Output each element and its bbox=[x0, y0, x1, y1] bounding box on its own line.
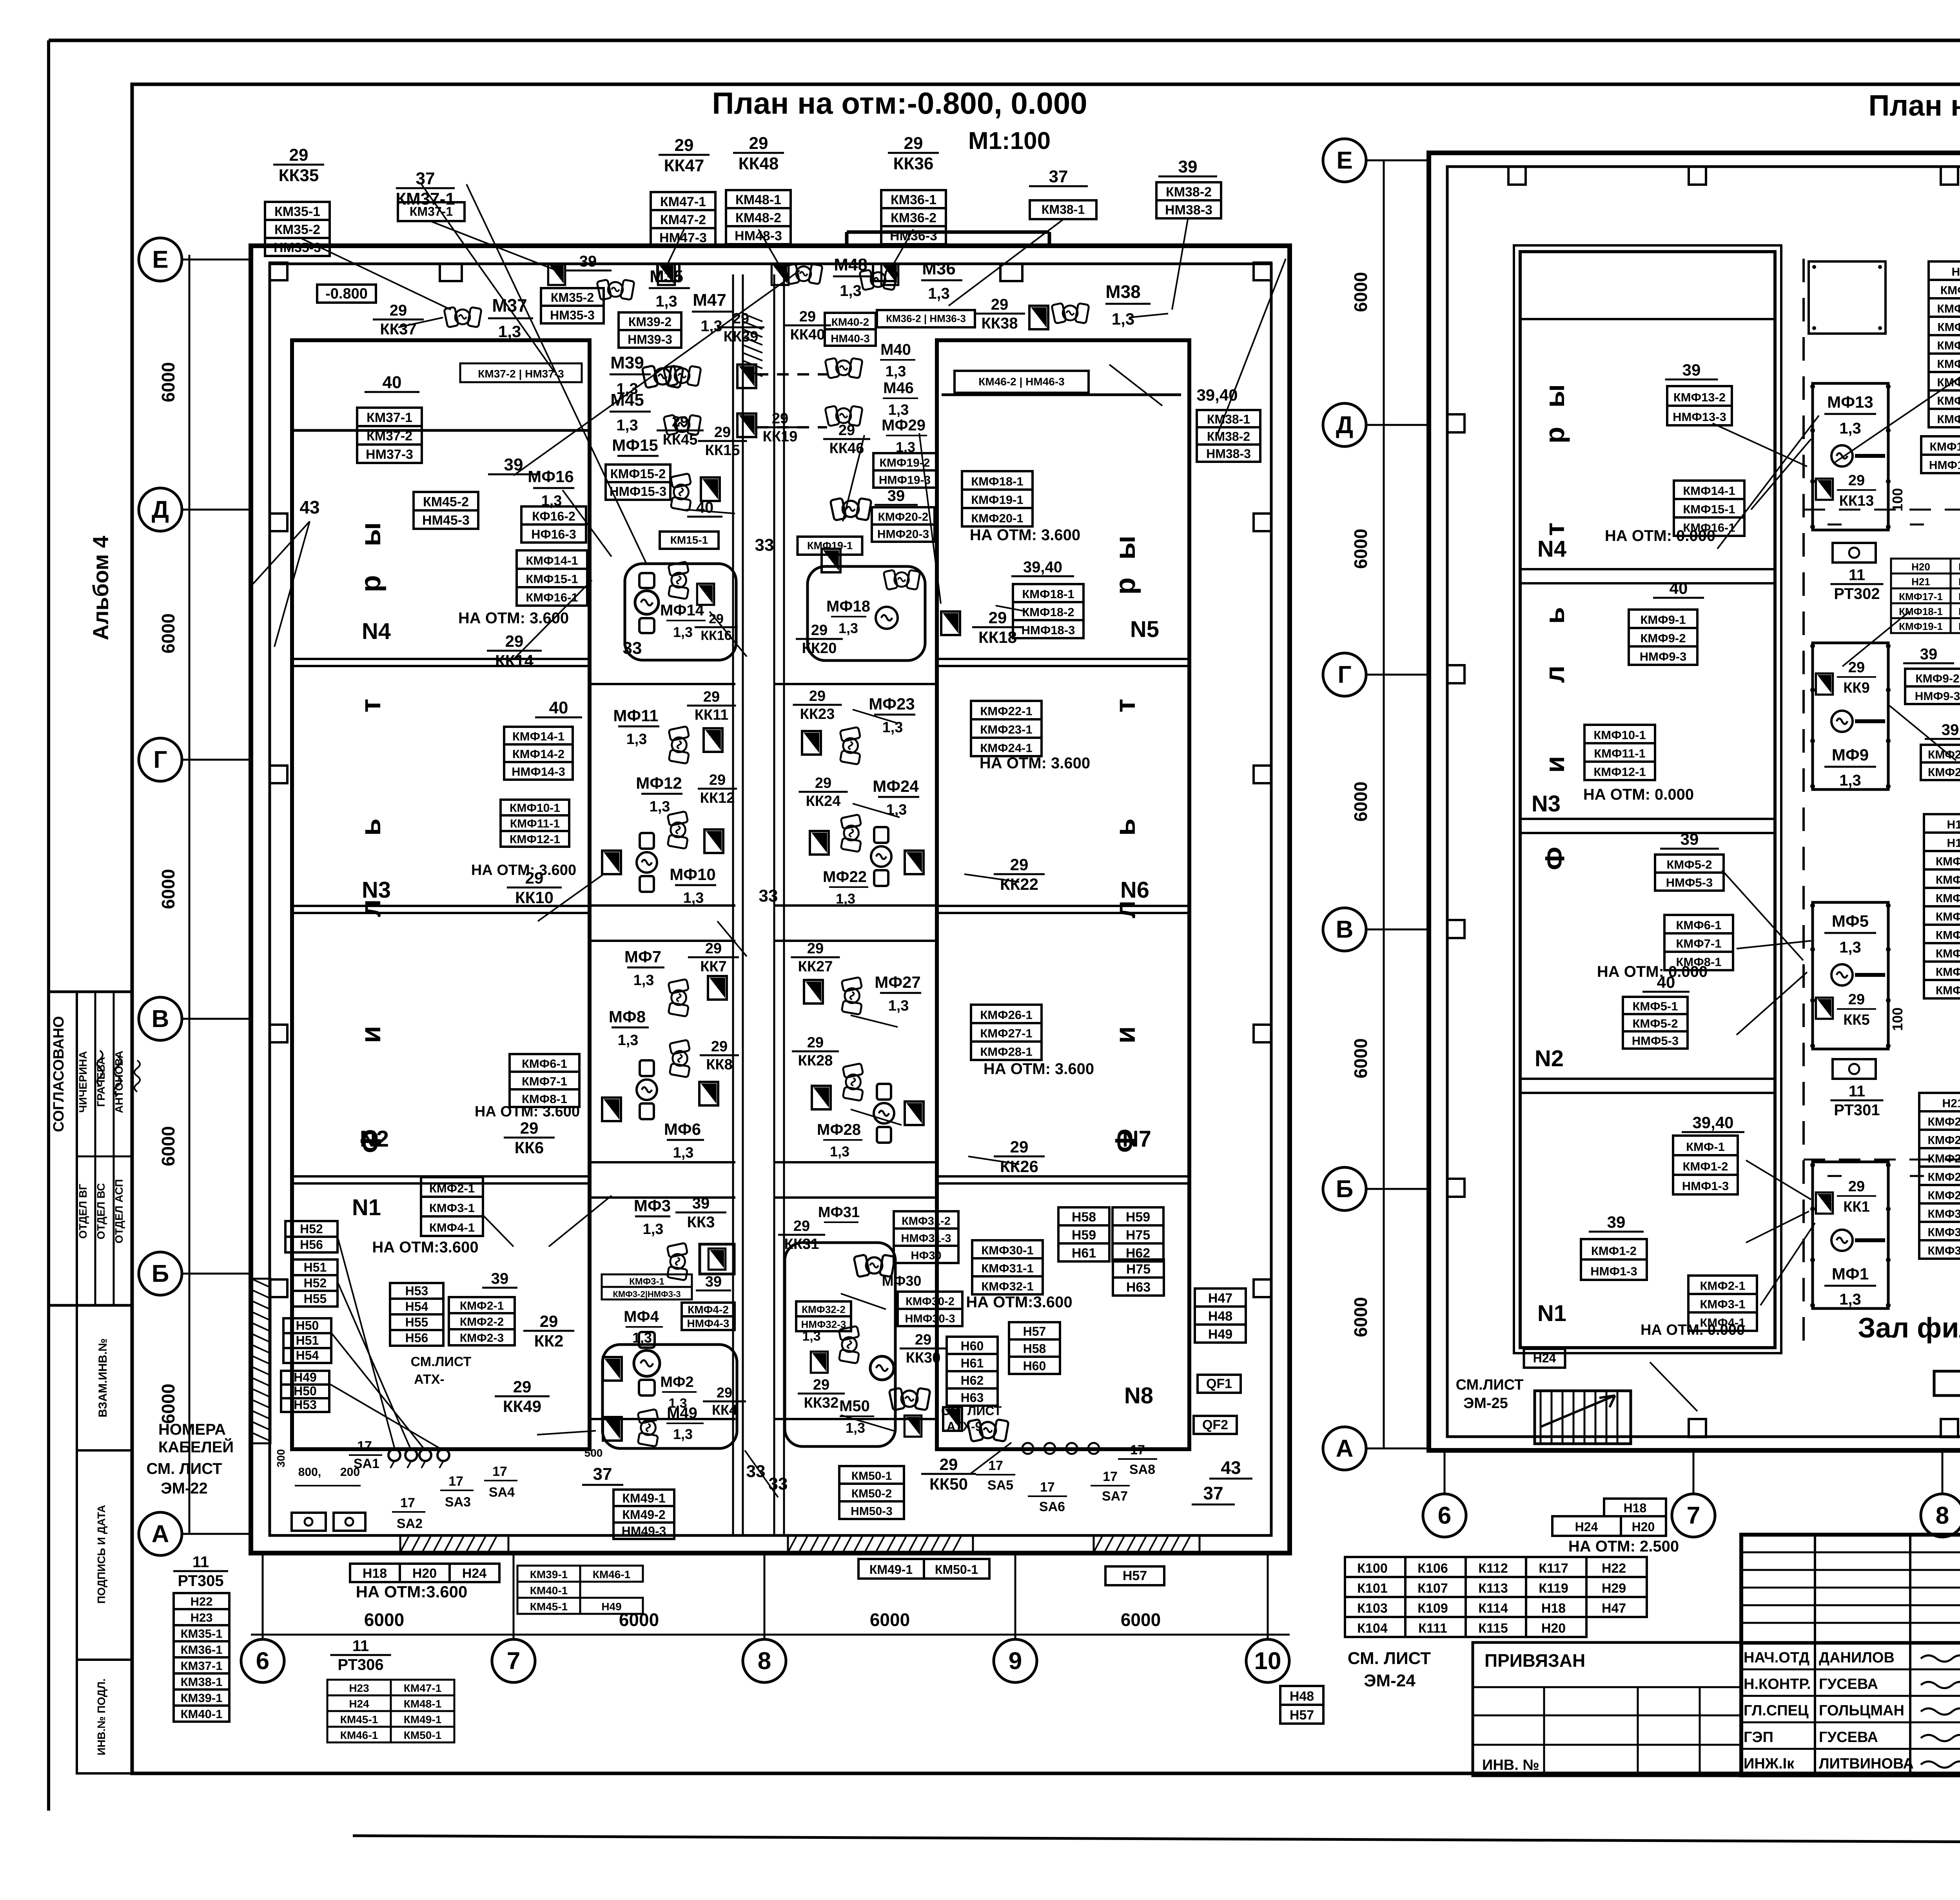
svg-text:КМ49-2: КМ49-2 bbox=[622, 1508, 665, 1522]
svg-text:КМФ26-1: КМФ26-1 bbox=[980, 1008, 1032, 1022]
svg-text:29: 29 bbox=[513, 1377, 532, 1396]
svg-text:Н52: Н52 bbox=[304, 1276, 327, 1290]
svg-text:29: 29 bbox=[772, 410, 788, 427]
svg-text:КМФ8-1: КМФ8-1 bbox=[1936, 984, 1960, 997]
svg-text:К104: К104 bbox=[1357, 1621, 1388, 1636]
svg-text:39,40: 39,40 bbox=[1196, 386, 1238, 404]
svg-text:29: 29 bbox=[838, 422, 855, 439]
svg-text:МФ5: МФ5 bbox=[1832, 912, 1869, 930]
svg-text:КМФ14-1: КМФ14-1 bbox=[1683, 484, 1735, 498]
svg-text:ОТДЕЛ ВГ: ОТДЕЛ ВГ bbox=[77, 1184, 89, 1239]
svg-text:КМФ32-2: КМФ32-2 bbox=[802, 1304, 846, 1316]
svg-text:КМФ31-2: КМФ31-2 bbox=[902, 1215, 951, 1227]
svg-text:800,: 800, bbox=[298, 1466, 321, 1479]
svg-text:Н57: Н57 bbox=[1023, 1324, 1046, 1338]
svg-text:К106: К106 bbox=[1417, 1561, 1448, 1576]
svg-text:М38: М38 bbox=[1105, 281, 1140, 302]
svg-text:КК35: КК35 bbox=[279, 166, 319, 185]
svg-text:SA8: SA8 bbox=[1129, 1462, 1155, 1477]
svg-text:SA5: SA5 bbox=[987, 1478, 1013, 1493]
svg-text:40: 40 bbox=[383, 373, 402, 392]
svg-text:40: 40 bbox=[549, 698, 568, 717]
svg-text:Н22: Н22 bbox=[191, 1595, 213, 1608]
svg-text:КМ38-2: КМ38-2 bbox=[1207, 429, 1250, 443]
svg-text:КМФ20-1: КМФ20-1 bbox=[1958, 561, 1960, 573]
svg-text:17: 17 bbox=[988, 1458, 1003, 1473]
svg-text:НМ36-3: НМ36-3 bbox=[890, 229, 937, 243]
svg-text:К113: К113 bbox=[1478, 1581, 1508, 1596]
svg-text:N8: N8 bbox=[1124, 1383, 1153, 1408]
svg-text:6000: 6000 bbox=[870, 1610, 910, 1630]
svg-text:А: А bbox=[1336, 1435, 1354, 1462]
svg-text:ы: ы bbox=[355, 522, 387, 546]
svg-text:39,40: 39,40 bbox=[1692, 1113, 1733, 1132]
svg-text:Н21: Н21 bbox=[1942, 1097, 1960, 1110]
svg-text:Н55: Н55 bbox=[405, 1315, 428, 1329]
svg-text:КМФ4-1: КМФ4-1 bbox=[429, 1221, 475, 1234]
svg-text:КМ48-1: КМ48-1 bbox=[404, 1698, 441, 1710]
svg-text:План на отм: 3.600: План на отм: 3.600 bbox=[1869, 89, 1960, 122]
svg-text:МФ2: МФ2 bbox=[660, 1374, 693, 1390]
svg-text:КМ39-1: КМ39-1 bbox=[530, 1568, 568, 1581]
svg-text:ЛИТВИНОВА: ЛИТВИНОВА bbox=[1819, 1755, 1914, 1772]
svg-text:7: 7 bbox=[1687, 1502, 1700, 1529]
svg-text:КМФ20-1: КМФ20-1 bbox=[971, 512, 1023, 525]
svg-text:КМ50-1: КМ50-1 bbox=[404, 1729, 441, 1741]
svg-text:НМ40-3: НМ40-3 bbox=[831, 332, 870, 345]
svg-text:39: 39 bbox=[1178, 157, 1198, 176]
svg-text:НМФ31-3: НМФ31-3 bbox=[901, 1232, 951, 1245]
svg-text:29: 29 bbox=[915, 1332, 931, 1348]
svg-text:7: 7 bbox=[507, 1648, 520, 1675]
svg-text:КМФ12-1: КМФ12-1 bbox=[1937, 339, 1960, 352]
svg-text:1,3: 1,3 bbox=[1839, 939, 1861, 956]
svg-text:КМФ5-1: КМФ5-1 bbox=[1632, 999, 1678, 1013]
svg-text:т: т bbox=[1539, 523, 1570, 536]
svg-text:ПРИВЯЗАН: ПРИВЯЗАН bbox=[1485, 1650, 1585, 1671]
svg-text:Н50: Н50 bbox=[296, 1319, 319, 1333]
svg-text:НА ОТМ:3.600: НА ОТМ:3.600 bbox=[372, 1239, 478, 1256]
svg-text:Н53: Н53 bbox=[294, 1397, 317, 1412]
svg-text:Е: Е bbox=[152, 246, 168, 273]
svg-text:8: 8 bbox=[758, 1648, 771, 1675]
svg-text:НМФ19-3: НМФ19-3 bbox=[879, 474, 931, 486]
svg-text:НМФ1-3: НМФ1-3 bbox=[1682, 1179, 1729, 1193]
svg-text:6000: 6000 bbox=[1350, 529, 1371, 569]
svg-text:КМФ-1: КМФ-1 bbox=[1686, 1140, 1725, 1154]
svg-text:КМФ12-1: КМФ12-1 bbox=[1593, 765, 1646, 779]
svg-text:КК11: КК11 bbox=[695, 707, 729, 723]
svg-text:НА ОТМ: 2.500: НА ОТМ: 2.500 bbox=[1568, 1538, 1679, 1555]
svg-text:Ф: Ф bbox=[1110, 1129, 1141, 1152]
svg-text:Н18: Н18 bbox=[1947, 818, 1960, 831]
svg-text:КМФ22-1: КМФ22-1 bbox=[980, 704, 1032, 718]
svg-text:МФ22: МФ22 bbox=[823, 868, 867, 886]
svg-text:1,3: 1,3 bbox=[1112, 310, 1134, 328]
svg-text:КМФ14-1: КМФ14-1 bbox=[526, 554, 578, 568]
svg-text:К115: К115 bbox=[1478, 1621, 1508, 1636]
svg-text:6000: 6000 bbox=[158, 362, 178, 402]
svg-text:Альбом 4: Альбом 4 bbox=[88, 536, 113, 641]
svg-text:КМ45-2: КМ45-2 bbox=[423, 495, 469, 510]
svg-text:Н60: Н60 bbox=[1023, 1359, 1046, 1373]
svg-text:N2: N2 bbox=[1535, 1046, 1564, 1071]
svg-text:N6: N6 bbox=[1120, 877, 1149, 903]
svg-text:КМФ14-1: КМФ14-1 bbox=[1937, 376, 1960, 389]
svg-text:SA4: SA4 bbox=[489, 1485, 515, 1500]
svg-text:РТ302: РТ302 bbox=[1834, 585, 1880, 602]
svg-text:МФ1: МФ1 bbox=[1832, 1265, 1869, 1283]
svg-text:СМ.ЛИСТ: СМ.ЛИСТ bbox=[1456, 1377, 1524, 1393]
svg-text:л: л bbox=[355, 899, 387, 917]
svg-text:SA2: SA2 bbox=[397, 1516, 423, 1531]
svg-text:КК30: КК30 bbox=[906, 1350, 941, 1366]
svg-text:ГЭП: ГЭП bbox=[1744, 1729, 1773, 1746]
svg-text:40: 40 bbox=[1657, 973, 1675, 991]
svg-text:КМФ5-1: КМФ5-1 bbox=[1936, 929, 1960, 942]
svg-text:МФ23: МФ23 bbox=[869, 695, 915, 713]
svg-text:АТХ-9: АТХ-9 bbox=[947, 1419, 982, 1434]
svg-text:29: 29 bbox=[705, 940, 722, 957]
svg-text:КМФ17-2: КМФ17-2 bbox=[1930, 441, 1960, 454]
svg-text:33: 33 bbox=[759, 886, 778, 906]
svg-text:р: р bbox=[1110, 577, 1141, 595]
svg-text:КМФ2-1: КМФ2-1 bbox=[1700, 1279, 1745, 1293]
svg-text:37: 37 bbox=[593, 1464, 612, 1484]
svg-text:SA3: SA3 bbox=[445, 1495, 471, 1510]
svg-text:НМ35-3: НМ35-3 bbox=[550, 308, 595, 322]
svg-text:Н19: Н19 bbox=[1947, 837, 1960, 850]
svg-text:НА ОТМ. 0.000: НА ОТМ. 0.000 bbox=[1641, 1322, 1745, 1338]
svg-text:37: 37 bbox=[416, 169, 435, 188]
svg-text:КМ40-2: КМ40-2 bbox=[831, 316, 869, 328]
svg-text:Н52: Н52 bbox=[300, 1222, 323, 1236]
svg-text:6: 6 bbox=[1438, 1502, 1451, 1529]
svg-text:КК6: КК6 bbox=[515, 1138, 544, 1157]
svg-text:N5: N5 bbox=[1130, 617, 1159, 642]
svg-text:29: 29 bbox=[703, 689, 720, 705]
svg-text:КМФ5-2: КМФ5-2 bbox=[1632, 1016, 1678, 1030]
svg-text:НА ОТМ: 0.000: НА ОТМ: 0.000 bbox=[1597, 963, 1708, 980]
svg-text:СМ. ЛИСТ: СМ. ЛИСТ bbox=[1348, 1649, 1431, 1668]
svg-text:КМ46-1: КМ46-1 bbox=[340, 1729, 378, 1741]
svg-text:29: 29 bbox=[989, 608, 1007, 627]
svg-text:НА ОТМ: 3.600: НА ОТМ: 3.600 bbox=[984, 1060, 1094, 1078]
svg-text:К107: К107 bbox=[1417, 1581, 1448, 1596]
svg-text:29: 29 bbox=[807, 1034, 824, 1051]
svg-text:Н49: Н49 bbox=[1208, 1327, 1232, 1342]
svg-text:КК10: КК10 bbox=[515, 888, 554, 907]
svg-text:1,3: 1,3 bbox=[701, 318, 722, 335]
svg-text:МФ28: МФ28 bbox=[817, 1121, 861, 1138]
svg-text:1,3: 1,3 bbox=[643, 1221, 664, 1238]
svg-text:Н56: Н56 bbox=[405, 1331, 428, 1345]
svg-text:29: 29 bbox=[505, 632, 524, 650]
svg-text:Н61: Н61 bbox=[1072, 1246, 1096, 1261]
svg-text:ь: ь bbox=[355, 818, 387, 836]
svg-text:Г: Г bbox=[1338, 661, 1351, 688]
svg-text:КМФ11-1: КМФ11-1 bbox=[1594, 747, 1646, 760]
svg-text:29: 29 bbox=[1848, 1178, 1865, 1195]
svg-text:КМФ7-1: КМФ7-1 bbox=[522, 1074, 567, 1088]
svg-text:КК39: КК39 bbox=[724, 328, 759, 345]
svg-text:КМ49-1: КМ49-1 bbox=[622, 1491, 665, 1505]
svg-text:11: 11 bbox=[192, 1553, 209, 1571]
svg-text:КМФ32-1: КМФ32-1 bbox=[1928, 1245, 1960, 1258]
svg-text:КМФ11-1: КМФ11-1 bbox=[1937, 321, 1960, 334]
svg-text:N4: N4 bbox=[362, 619, 391, 644]
svg-text:АНТОНОВА: АНТОНОВА bbox=[113, 1051, 125, 1113]
svg-text:МФ9: МФ9 bbox=[1832, 746, 1869, 764]
svg-text:КМФ27-1: КМФ27-1 bbox=[1928, 1152, 1960, 1165]
svg-text:6000: 6000 bbox=[1350, 1038, 1371, 1078]
svg-text:К101: К101 bbox=[1357, 1581, 1387, 1596]
svg-text:СМ. ЛИСТ: СМ. ЛИСТ bbox=[941, 1404, 1002, 1418]
svg-text:39: 39 bbox=[1920, 646, 1938, 663]
svg-text:КМФ14-1: КМФ14-1 bbox=[512, 730, 564, 743]
svg-text:КМФ5-2: КМФ5-2 bbox=[1666, 858, 1712, 871]
svg-text:29: 29 bbox=[1010, 855, 1029, 874]
svg-text:КМФ22-1: КМФ22-1 bbox=[1958, 591, 1960, 602]
svg-text:КК50: КК50 bbox=[929, 1475, 968, 1493]
svg-text:МФ6: МФ6 bbox=[664, 1120, 701, 1138]
svg-text:Н58: Н58 bbox=[1072, 1210, 1096, 1225]
svg-text:л: л bbox=[1539, 666, 1570, 683]
svg-text:КК47: КК47 bbox=[664, 156, 704, 175]
svg-text:КМФ9-2: КМФ9-2 bbox=[1640, 632, 1686, 645]
svg-text:КМФ19-1: КМФ19-1 bbox=[807, 540, 853, 552]
svg-text:Н48: Н48 bbox=[1208, 1309, 1232, 1324]
svg-text:МФ14: МФ14 bbox=[660, 602, 704, 619]
svg-text:Н22: Н22 bbox=[1602, 1561, 1626, 1576]
svg-text:КМФ1-1: КМФ1-1 bbox=[1936, 855, 1960, 868]
svg-text:29: 29 bbox=[1848, 659, 1865, 676]
svg-text:КМ38-1: КМ38-1 bbox=[1042, 203, 1085, 217]
svg-text:Н62: Н62 bbox=[961, 1373, 984, 1387]
svg-text:и: и bbox=[1539, 756, 1570, 773]
svg-text:т: т bbox=[355, 699, 387, 712]
svg-text:11: 11 bbox=[352, 1637, 369, 1655]
svg-text:11: 11 bbox=[1849, 1083, 1865, 1100]
svg-text:29: 29 bbox=[675, 136, 694, 155]
svg-text:Н63: Н63 bbox=[1126, 1280, 1151, 1295]
svg-text:КМ39-2: КМ39-2 bbox=[628, 315, 671, 329]
svg-text:КМФ28-1: КМФ28-1 bbox=[1928, 1171, 1960, 1184]
svg-text:Н.КОНТР.: Н.КОНТР. bbox=[1744, 1676, 1811, 1693]
svg-text:НМФ15-3: НМФ15-3 bbox=[610, 484, 667, 499]
svg-text:ВЗАМ.ИНВ.№: ВЗАМ.ИНВ.№ bbox=[96, 1338, 109, 1417]
svg-text:КК2: КК2 bbox=[534, 1332, 564, 1350]
svg-text:КМФ9-1: КМФ9-1 bbox=[1640, 613, 1686, 627]
svg-text:1,3: 1,3 bbox=[633, 972, 654, 989]
svg-text:НМ38-3: НМ38-3 bbox=[1165, 203, 1212, 218]
svg-text:КК31: КК31 bbox=[784, 1236, 819, 1252]
svg-text:6000: 6000 bbox=[158, 1384, 178, 1424]
svg-text:Н29: Н29 bbox=[1602, 1581, 1626, 1596]
svg-text:КМФ32-1: КМФ32-1 bbox=[981, 1279, 1033, 1293]
svg-text:МФ4: МФ4 bbox=[624, 1308, 659, 1325]
svg-text:и: и bbox=[355, 1026, 387, 1043]
svg-text:Н47: Н47 bbox=[1602, 1601, 1626, 1616]
svg-text:КМ38-1: КМ38-1 bbox=[181, 1675, 223, 1689]
svg-text:Д: Д bbox=[1336, 412, 1353, 439]
svg-text:НА ОТМ: 0.000: НА ОТМ: 0.000 bbox=[1583, 786, 1694, 803]
svg-text:КМФ7-1: КМФ7-1 bbox=[1676, 937, 1721, 951]
svg-text:КМФ20-2: КМФ20-2 bbox=[878, 510, 929, 523]
svg-text:НА ОТМ: 3.600: НА ОТМ: 3.600 bbox=[471, 862, 576, 878]
svg-text:6000: 6000 bbox=[1350, 1297, 1371, 1337]
svg-text:НАЧ.ОТД: НАЧ.ОТД bbox=[1744, 1650, 1809, 1666]
svg-text:1,3: 1,3 bbox=[673, 624, 693, 640]
svg-text:Н20: Н20 bbox=[1541, 1621, 1566, 1636]
svg-text:39: 39 bbox=[1681, 830, 1699, 848]
svg-text:МФ18: МФ18 bbox=[826, 598, 870, 615]
svg-text:КФ16-2: КФ16-2 bbox=[532, 509, 575, 523]
svg-text:Н20: Н20 bbox=[1911, 561, 1930, 573]
svg-text:КМФ10-1: КМФ10-1 bbox=[1593, 728, 1646, 742]
svg-text:КМФ21-3: КМФ21-3 bbox=[1928, 766, 1960, 779]
svg-text:1,3: 1,3 bbox=[655, 293, 677, 310]
svg-text:КМФ1-2: КМФ1-2 bbox=[1591, 1244, 1637, 1258]
svg-text:КМ36-2: КМ36-2 bbox=[891, 211, 936, 225]
svg-text:НА ОТМ: 0.000: НА ОТМ: 0.000 bbox=[1605, 527, 1715, 544]
svg-text:1,3: 1,3 bbox=[1839, 772, 1861, 789]
svg-text:МФ8: МФ8 bbox=[609, 1007, 646, 1026]
svg-text:К109: К109 bbox=[1417, 1601, 1448, 1616]
svg-text:Н58: Н58 bbox=[1023, 1341, 1046, 1356]
svg-text:КМФ2-1: КМФ2-1 bbox=[429, 1181, 475, 1195]
svg-text:КМФ17-1: КМФ17-1 bbox=[1899, 591, 1943, 602]
svg-text:КМ48-1: КМ48-1 bbox=[735, 192, 781, 207]
svg-text:р: р bbox=[355, 575, 387, 592]
svg-text:Н59: Н59 bbox=[1126, 1210, 1150, 1225]
svg-text:Н51: Н51 bbox=[296, 1334, 319, 1348]
svg-text:КК14: КК14 bbox=[495, 651, 534, 670]
svg-text:1,3: 1,3 bbox=[830, 1143, 849, 1160]
svg-text:М36: М36 bbox=[922, 259, 956, 278]
svg-text:Н53: Н53 bbox=[405, 1284, 428, 1298]
svg-text:29: 29 bbox=[809, 688, 826, 704]
svg-text:-0.800: -0.800 bbox=[325, 286, 368, 302]
svg-text:М47: М47 bbox=[693, 290, 726, 310]
svg-text:КМФ27-1: КМФ27-1 bbox=[980, 1027, 1032, 1040]
svg-text:Н75: Н75 bbox=[1126, 1228, 1150, 1243]
svg-text:КМФ26-1: КМФ26-1 bbox=[1928, 1134, 1960, 1147]
svg-text:29: 29 bbox=[815, 775, 831, 791]
svg-text:КК45: КК45 bbox=[663, 432, 698, 448]
svg-text:КМФ2-3: КМФ2-3 bbox=[460, 1332, 504, 1345]
svg-text:100: 100 bbox=[1889, 488, 1906, 512]
svg-text:Н47: Н47 bbox=[1208, 1291, 1232, 1306]
svg-text:КМ50-2: КМ50-2 bbox=[851, 1487, 892, 1500]
svg-text:КМФ29-1: КМФ29-1 bbox=[1928, 1189, 1960, 1202]
svg-text:ПОДПИСЬ И ДАТА: ПОДПИСЬ И ДАТА bbox=[95, 1505, 107, 1604]
svg-text:29: 29 bbox=[799, 309, 816, 325]
svg-text:КК48: КК48 bbox=[739, 154, 779, 173]
svg-text:43: 43 bbox=[1221, 1457, 1241, 1478]
svg-text:Н23: Н23 bbox=[191, 1611, 213, 1624]
svg-text:6000: 6000 bbox=[1350, 782, 1371, 822]
svg-text:КК36: КК36 bbox=[893, 154, 934, 173]
svg-text:НМ50-3: НМ50-3 bbox=[851, 1505, 893, 1518]
svg-text:КМФ18-1: КМФ18-1 bbox=[971, 475, 1023, 488]
svg-text:200: 200 bbox=[340, 1466, 360, 1479]
svg-text:КМ40-1: КМ40-1 bbox=[530, 1584, 568, 1597]
svg-text:НА ОТМ: 3.600: НА ОТМ: 3.600 bbox=[970, 526, 1080, 544]
svg-text:КАБЕЛЕЙ: КАБЕЛЕЙ bbox=[158, 1438, 234, 1456]
svg-text:НМФ20-3: НМФ20-3 bbox=[877, 528, 929, 541]
svg-text:КМ36-1: КМ36-1 bbox=[891, 192, 936, 207]
svg-text:М39: М39 bbox=[610, 353, 644, 372]
svg-text:40: 40 bbox=[1670, 579, 1688, 597]
svg-text:НА ОТМ:3.600: НА ОТМ:3.600 bbox=[356, 1582, 468, 1601]
svg-text:Н51: Н51 bbox=[304, 1260, 327, 1274]
svg-text:НМФ1-3: НМФ1-3 bbox=[1590, 1265, 1637, 1278]
svg-text:КМФ24-1: КМФ24-1 bbox=[980, 741, 1032, 755]
svg-text:КК18: КК18 bbox=[978, 628, 1017, 646]
svg-text:29: 29 bbox=[672, 414, 688, 430]
svg-text:КМФ13-1: КМФ13-1 bbox=[1937, 358, 1960, 371]
svg-text:КМ50-1: КМ50-1 bbox=[935, 1562, 978, 1577]
svg-text:Н24: Н24 bbox=[462, 1566, 486, 1581]
svg-text:1,3: 1,3 bbox=[838, 620, 858, 636]
svg-text:Н18: Н18 bbox=[1624, 1501, 1647, 1515]
svg-text:1,3: 1,3 bbox=[626, 731, 647, 748]
svg-text:РТ301: РТ301 bbox=[1834, 1102, 1880, 1119]
svg-text:ИНВ. №: ИНВ. № bbox=[1482, 1757, 1539, 1773]
svg-text:17: 17 bbox=[1103, 1469, 1118, 1484]
svg-text:КМФ6-1: КМФ6-1 bbox=[1676, 918, 1721, 932]
svg-text:КМ46-2 | НМ46-3: КМ46-2 | НМ46-3 bbox=[978, 376, 1064, 388]
svg-text:Н57: Н57 bbox=[1290, 1708, 1314, 1722]
svg-text:1,3: 1,3 bbox=[840, 282, 862, 299]
svg-text:КМФ2-1: КМФ2-1 bbox=[1936, 874, 1960, 887]
svg-text:КМФ19-1: КМФ19-1 bbox=[1899, 621, 1943, 632]
svg-text:КК23: КК23 bbox=[800, 706, 835, 722]
svg-text:Н48: Н48 bbox=[1290, 1689, 1314, 1704]
svg-text:29: 29 bbox=[807, 940, 824, 957]
svg-text:К103: К103 bbox=[1357, 1601, 1387, 1616]
svg-text:29: 29 bbox=[811, 622, 828, 639]
svg-text:НА ОТМ:3.600: НА ОТМ:3.600 bbox=[966, 1294, 1072, 1311]
svg-text:КМФ2-2: КМФ2-2 bbox=[460, 1316, 504, 1328]
svg-text:6000: 6000 bbox=[1121, 1610, 1161, 1630]
svg-text:К112: К112 bbox=[1478, 1561, 1508, 1576]
svg-text:НМФ14-3: НМФ14-3 bbox=[512, 765, 565, 779]
svg-text:33: 33 bbox=[769, 1474, 788, 1494]
svg-text:29: 29 bbox=[904, 134, 923, 153]
svg-text:КМФ10-1: КМФ10-1 bbox=[1937, 303, 1960, 316]
svg-text:КМ36-1: КМ36-1 bbox=[181, 1643, 223, 1657]
svg-text:К114: К114 bbox=[1478, 1601, 1508, 1616]
svg-text:300: 300 bbox=[275, 1449, 287, 1468]
svg-text:КМ37-1: КМ37-1 bbox=[410, 205, 453, 219]
svg-text:В: В bbox=[1336, 916, 1354, 943]
svg-text:ИНЖ.Iк: ИНЖ.Iк bbox=[1744, 1755, 1795, 1772]
svg-text:Н20: Н20 bbox=[412, 1566, 437, 1581]
svg-text:КМ47-2: КМ47-2 bbox=[660, 212, 706, 227]
svg-text:Н59: Н59 bbox=[1072, 1228, 1096, 1243]
svg-text:SA7: SA7 bbox=[1102, 1489, 1128, 1504]
svg-text:Б: Б bbox=[152, 1260, 169, 1287]
svg-text:1,3: 1,3 bbox=[650, 798, 670, 815]
svg-text:М50: М50 bbox=[839, 1397, 870, 1415]
svg-text:1,3: 1,3 bbox=[498, 322, 521, 341]
svg-text:6000: 6000 bbox=[158, 869, 178, 909]
svg-text:Н23: Н23 bbox=[349, 1682, 369, 1694]
svg-text:НМ48-3: НМ48-3 bbox=[735, 229, 782, 243]
svg-text:МФ12: МФ12 bbox=[636, 774, 682, 792]
